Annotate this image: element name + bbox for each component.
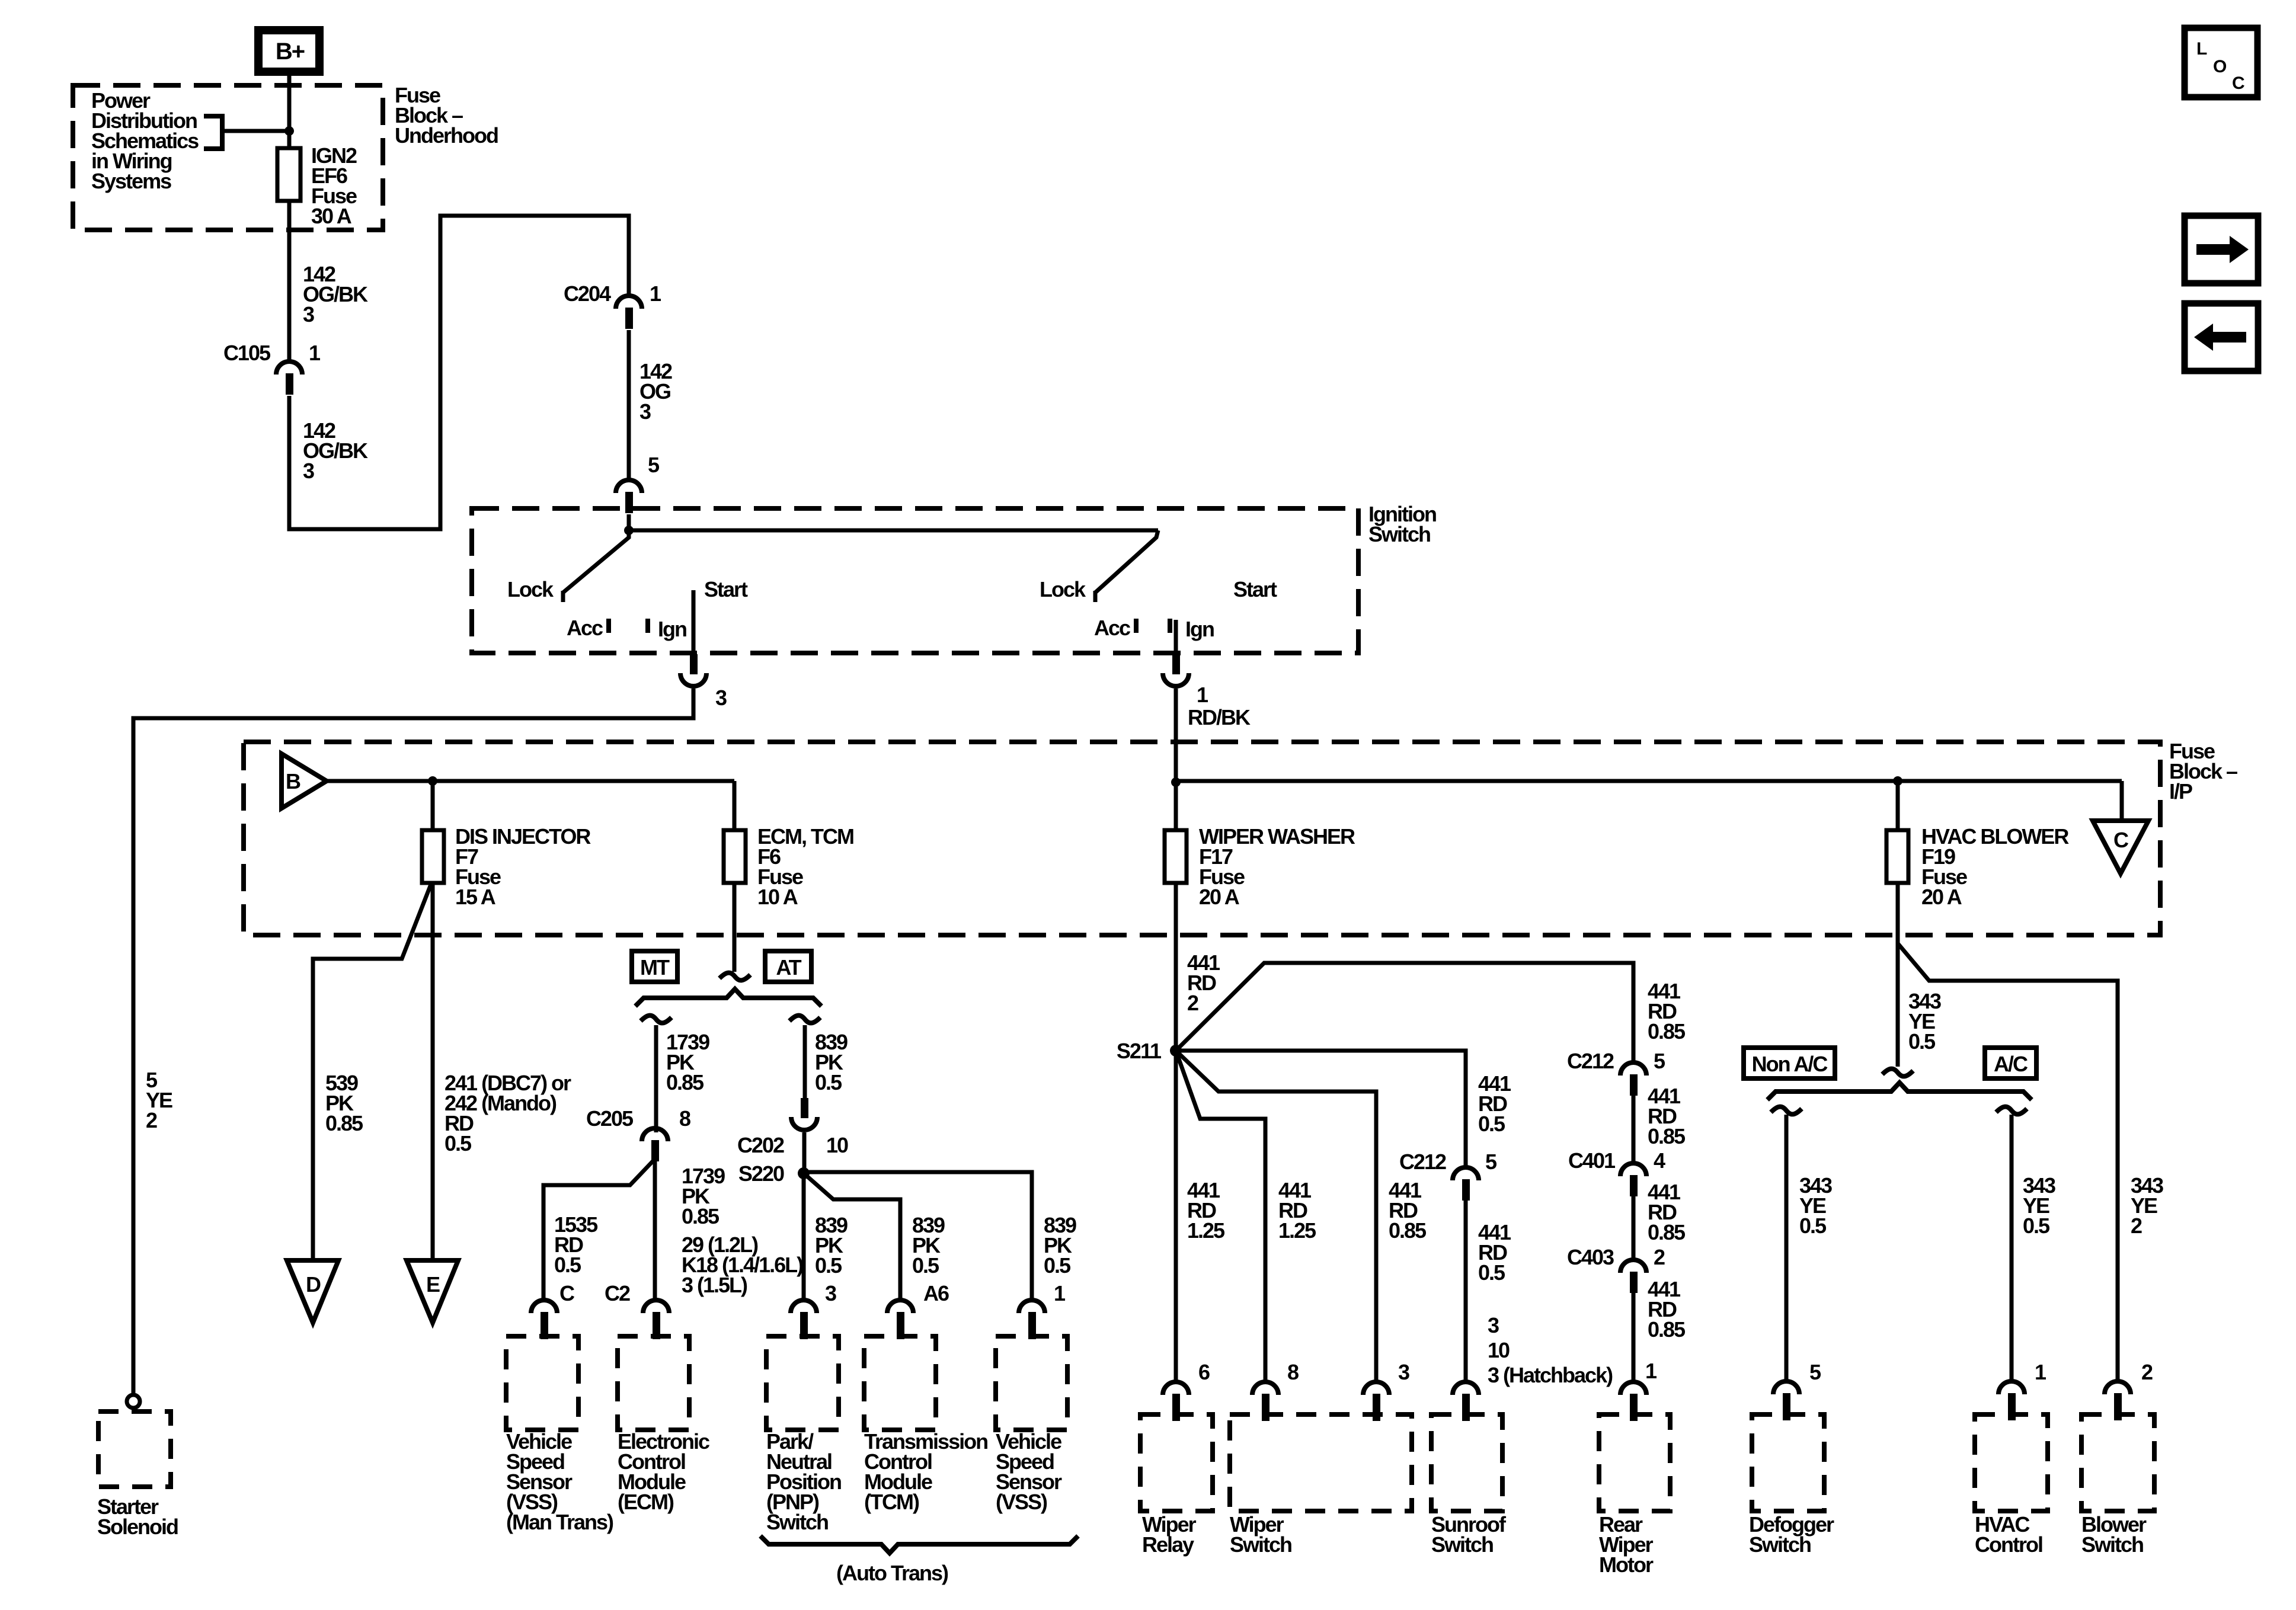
wire S211 to rear wiper chain: [1176, 963, 1633, 1061]
svg-text:0.5: 0.5: [912, 1253, 939, 1278]
arrow previous box: [2185, 303, 2258, 371]
svg-text:O: O: [2213, 57, 2227, 76]
wire branch to blower switch: [1898, 943, 2118, 1381]
connector to defogger switch: [1773, 1381, 1799, 1394]
wire bracket to node: [222, 129, 289, 133]
LOC legend box: [2185, 28, 2257, 97]
junction dot at F7: [428, 776, 437, 786]
wire F17 to S211: [1174, 883, 1178, 1051]
svg-text:L: L: [2196, 39, 2207, 59]
svg-text:Solenoid: Solenoid: [97, 1515, 178, 1539]
wire F19 down: [1896, 883, 1900, 943]
contact tick Ign right: [1168, 619, 1172, 633]
svg-text:Motor: Motor: [1599, 1553, 1654, 1577]
svg-text:Lock: Lock: [507, 577, 554, 601]
svg-text:1: 1: [650, 281, 661, 306]
svg-text:C202: C202: [737, 1133, 784, 1157]
connector C202: [801, 1098, 808, 1118]
svg-text:1: 1: [1197, 683, 1208, 707]
svg-text:Switch: Switch: [2081, 1532, 2143, 1557]
connector to sunroof switch: [1453, 1382, 1479, 1395]
svg-text:Ign: Ign: [1185, 617, 1214, 641]
svg-text:C204: C204: [564, 281, 611, 306]
svg-text:(TCM): (TCM): [864, 1490, 919, 1514]
svg-text:C401: C401: [1568, 1148, 1616, 1173]
connector to blower switch: [2105, 1381, 2131, 1394]
MT option box: [632, 951, 677, 982]
terminal ring starter solenoid: [127, 1395, 140, 1408]
svg-text:0.5: 0.5: [815, 1253, 842, 1278]
svg-text:3 (Hatchback): 3 (Hatchback): [1488, 1363, 1613, 1387]
break symbol AC branch: [1996, 1107, 2027, 1115]
brace Non AC / AC: [1767, 1083, 2032, 1100]
svg-text:AT: AT: [776, 955, 801, 980]
junction dot at F17: [1171, 777, 1181, 787]
svg-text:C: C: [559, 1281, 575, 1305]
svg-text:Acc: Acc: [1094, 616, 1130, 640]
connector pin 3 ignition: [690, 654, 698, 674]
svg-text:Ign: Ign: [658, 617, 686, 641]
svg-text:8: 8: [679, 1106, 690, 1131]
connector to VSS man trans: [531, 1300, 557, 1313]
svg-text:0.85: 0.85: [1648, 1019, 1686, 1044]
wire S211 to wiper relay: [1174, 1051, 1178, 1380]
svg-text:0.85: 0.85: [325, 1111, 363, 1135]
wire pin5 into switch: [627, 514, 631, 533]
svg-text:5: 5: [1654, 1049, 1665, 1073]
svg-text:3 (1.5L): 3 (1.5L): [682, 1273, 747, 1297]
svg-text:0.5: 0.5: [554, 1253, 581, 1277]
wire C205 to VSS man: [653, 1160, 657, 1300]
svg-text:1.25: 1.25: [1278, 1218, 1316, 1243]
switch wiper left: [563, 530, 629, 593]
svg-text:4: 4: [1654, 1148, 1665, 1173]
Electronic Control Module dashed box: [618, 1336, 689, 1430]
svg-text:0.5: 0.5: [1478, 1260, 1505, 1285]
svg-text:Switch: Switch: [1431, 1532, 1493, 1557]
wire F19 to AC split: [1896, 943, 1900, 1067]
svg-text:2: 2: [1187, 991, 1198, 1015]
brace MT/AT: [635, 989, 821, 1006]
Starter Solenoid dashed box: [98, 1411, 171, 1487]
svg-text:5: 5: [1809, 1360, 1821, 1384]
svg-text:1: 1: [2035, 1360, 2046, 1384]
svg-text:Switch: Switch: [766, 1510, 828, 1534]
svg-text:Start: Start: [704, 577, 748, 601]
fuse F19 HVAC BLOWER: [1886, 830, 1908, 883]
break symbol AT branch: [789, 1016, 820, 1023]
svg-text:0.5: 0.5: [1908, 1029, 1936, 1054]
Non A/C option box: [1744, 1048, 1835, 1078]
wire C105 to loop: [289, 216, 629, 529]
connector to wiper switch pin8: [1252, 1382, 1278, 1395]
arrow next box: [2185, 216, 2258, 283]
svg-text:0.5: 0.5: [1478, 1112, 1505, 1136]
bus wire right segment: [1176, 779, 2122, 783]
svg-text:8: 8: [1287, 1360, 1299, 1384]
svg-text:I/P: I/P: [2169, 779, 2192, 804]
junction dot S211: [1170, 1045, 1182, 1057]
Wiper Relay dashed box: [1140, 1414, 1213, 1511]
junction dot S220: [798, 1167, 810, 1179]
svg-text:0.85: 0.85: [666, 1070, 704, 1094]
svg-text:Acc: Acc: [567, 616, 603, 640]
break symbol MT branch: [641, 1016, 671, 1023]
connector C401: [1620, 1163, 1646, 1176]
svg-text:0.5: 0.5: [445, 1131, 472, 1156]
junction dot above fuse IGN2: [284, 126, 294, 136]
svg-text:S220: S220: [738, 1161, 784, 1186]
svg-text:0.5: 0.5: [815, 1070, 842, 1094]
wire S220 to TCM: [804, 1173, 900, 1300]
svg-text:1.25: 1.25: [1187, 1218, 1225, 1243]
svg-text:0.5: 0.5: [1044, 1253, 1071, 1278]
svg-text:2: 2: [1654, 1245, 1665, 1269]
Vehicle Speed Sensor ManTrans dashed box: [506, 1336, 578, 1430]
break symbol F6 output: [720, 973, 750, 981]
Sunroof Switch dashed box: [1431, 1414, 1502, 1511]
wire 142 OG to ignition switch: [627, 330, 631, 479]
svg-text:A/C: A/C: [1994, 1052, 2028, 1076]
svg-text:C205: C205: [586, 1106, 634, 1131]
contact tick Lock left: [561, 591, 565, 602]
svg-text:10 A: 10 A: [757, 885, 798, 909]
svg-text:Switch: Switch: [1230, 1532, 1291, 1557]
break symbol AC split: [1882, 1069, 1913, 1077]
wire branch to VSS C: [543, 1160, 654, 1300]
svg-text:Relay: Relay: [1142, 1532, 1194, 1557]
svg-text:1: 1: [1054, 1281, 1066, 1305]
svg-text:0.85: 0.85: [1389, 1218, 1427, 1243]
svg-text:RD/BK: RD/BK: [1188, 705, 1251, 729]
svg-text:0.85: 0.85: [1648, 1124, 1686, 1148]
svg-text:0.5: 0.5: [1799, 1214, 1827, 1238]
triangle B: [282, 754, 327, 808]
svg-text:(Man Trans): (Man Trans): [506, 1510, 613, 1534]
bracket for note: [204, 116, 222, 149]
bus corner to triangle C: [2120, 781, 2124, 821]
svg-text:20 A: 20 A: [1921, 885, 1962, 909]
svg-text:1: 1: [1645, 1359, 1657, 1383]
svg-text:(VSS): (VSS): [996, 1490, 1047, 1514]
svg-text:2: 2: [146, 1108, 157, 1132]
Transmission Control Module dashed box: [864, 1336, 936, 1430]
svg-text:Systems: Systems: [91, 169, 171, 193]
corner down to F6: [733, 781, 737, 830]
svg-text:E: E: [426, 1272, 440, 1297]
svg-text:B+: B+: [276, 39, 305, 65]
svg-text:Control: Control: [1975, 1532, 2042, 1557]
connector C105: [276, 361, 302, 375]
wire S220 to PNP: [802, 1173, 806, 1300]
svg-text:3: 3: [303, 302, 314, 327]
wire F6 output: [733, 883, 737, 972]
contact tick Ign left: [645, 619, 650, 633]
wire fuse IGN2 to C105: [287, 201, 292, 361]
wire B+ down into fuse block: [287, 71, 292, 150]
junction dot ignition feed: [624, 526, 634, 535]
wire pin 3 to starter solenoid: [133, 689, 693, 1395]
Vehicle Speed Sensor dashed box: [996, 1336, 1067, 1430]
svg-text:30 A: 30 A: [311, 204, 352, 228]
Park Neutral Position Switch dashed box: [766, 1336, 839, 1430]
junction dot at F19: [1893, 776, 1902, 786]
svg-text:MT: MT: [640, 955, 670, 980]
Ignition Switch dashed box: [472, 508, 1358, 653]
connector to rear wiper motor: [1620, 1382, 1646, 1395]
HVAC Control dashed box: [1975, 1414, 2048, 1511]
svg-text:(Auto Trans): (Auto Trans): [836, 1561, 948, 1585]
svg-text:3: 3: [1398, 1360, 1409, 1384]
wire S211 to wiper switch pin8: [1176, 1051, 1265, 1380]
connector C403: [1620, 1260, 1646, 1273]
svg-text:0.85: 0.85: [1648, 1220, 1686, 1244]
wire to HVAC control: [2010, 1115, 2014, 1381]
connector to PNP switch: [791, 1300, 817, 1313]
svg-text:3: 3: [715, 686, 727, 710]
wire C202 to S220: [802, 1132, 807, 1173]
fuse F7 DIS INJECTOR: [422, 830, 444, 883]
svg-text:D: D: [306, 1272, 321, 1297]
Wiper Switch dashed box: [1230, 1414, 1412, 1511]
fuse F6 ECM TCM: [724, 830, 746, 883]
wire S211 to wiper switch pin3: [1176, 1051, 1376, 1380]
svg-text:0.85: 0.85: [682, 1204, 720, 1228]
wire C401 to C403: [1632, 1196, 1636, 1258]
svg-text:C403: C403: [1567, 1245, 1614, 1269]
svg-text:15 A: 15 A: [455, 885, 496, 909]
connector to ECM: [643, 1300, 669, 1313]
connector to TCM: [887, 1300, 913, 1313]
wire F7 to E: [431, 883, 435, 1260]
svg-text:C105: C105: [223, 341, 271, 365]
connector C212 sunroof: [1453, 1167, 1479, 1180]
contact line Start-Ign left: [692, 590, 696, 654]
A/C option box: [1985, 1048, 2036, 1078]
svg-text:(ECM): (ECM): [618, 1490, 674, 1514]
connector pin 5 ignition switch: [616, 480, 642, 493]
svg-text:0.85: 0.85: [1648, 1317, 1686, 1342]
switch wiper right: [1095, 530, 1158, 593]
svg-text:Non A/C: Non A/C: [1752, 1052, 1828, 1076]
svg-text:Switch: Switch: [1368, 522, 1430, 546]
triangle C: [2093, 821, 2148, 873]
svg-text:3: 3: [303, 459, 314, 483]
svg-text:Underhood: Underhood: [395, 123, 498, 148]
svg-text:5: 5: [1485, 1150, 1497, 1174]
brace Auto Trans: [760, 1536, 1078, 1553]
wire S211 to sunroof: [1176, 1051, 1466, 1166]
break symbol non AC branch: [1771, 1107, 1802, 1115]
svg-text:6: 6: [1198, 1360, 1210, 1384]
connector pin 1 ignition: [1172, 654, 1180, 674]
connector to wiper switch pin3: [1363, 1382, 1389, 1395]
contact line Ign right: [1174, 620, 1178, 654]
fuse F17 WIPER WASHER: [1165, 830, 1187, 883]
wire down to F7: [431, 781, 435, 830]
connector C205: [642, 1128, 668, 1141]
svg-text:2: 2: [2131, 1214, 2142, 1238]
connector to wiper relay: [1163, 1382, 1189, 1395]
svg-text:10: 10: [826, 1133, 848, 1157]
connector C204: [616, 296, 642, 309]
svg-text:5: 5: [648, 453, 660, 477]
triangle E: [407, 1260, 458, 1323]
wire down to F17: [1174, 781, 1178, 830]
svg-text:3: 3: [639, 399, 651, 424]
connector C212 rear: [1620, 1062, 1646, 1076]
Defogger Switch dashed box: [1752, 1414, 1824, 1511]
connector to HVAC control: [1998, 1381, 2025, 1394]
svg-text:C2: C2: [605, 1281, 630, 1305]
contact tick Acc right: [1134, 619, 1139, 633]
Fuse Block - Underhood dashed box: [73, 85, 383, 230]
wire MT branch: [654, 1025, 658, 1132]
svg-text:Start: Start: [1233, 577, 1277, 601]
svg-text:1: 1: [309, 341, 321, 365]
triangle D: [287, 1260, 338, 1323]
wire AT branch: [803, 1025, 807, 1102]
svg-text:A6: A6: [923, 1281, 949, 1305]
svg-text:10: 10: [1488, 1338, 1510, 1362]
svg-text:C212: C212: [1399, 1150, 1446, 1174]
Rear Wiper Motor dashed box: [1599, 1414, 1670, 1511]
wire down to F19: [1896, 781, 1900, 830]
svg-text:Switch: Switch: [1749, 1532, 1811, 1557]
svg-text:S211: S211: [1117, 1039, 1162, 1063]
wire C403 to rear wiper motor: [1632, 1293, 1636, 1380]
wire to defogger switch: [1785, 1115, 1789, 1381]
wire C212 to C401: [1632, 1096, 1636, 1161]
svg-text:20 A: 20 A: [1199, 885, 1240, 909]
wire C212 to sunroof switch: [1464, 1201, 1468, 1380]
contact tick Acc left: [606, 619, 611, 633]
wire ignition feed bus: [629, 529, 1158, 533]
bus wire from B: [327, 779, 734, 783]
svg-text:3: 3: [1488, 1313, 1499, 1337]
svg-text:B: B: [286, 769, 300, 793]
svg-text:C: C: [2113, 828, 2129, 852]
battery feed B+ terminal box: [258, 30, 319, 72]
wire pin 1 to fuse block I/P: [1174, 689, 1178, 782]
contact tick Lock right: [1093, 591, 1098, 602]
wire F7 branch to D: [313, 883, 431, 1260]
fuse IGN2 EF6 30A: [277, 148, 300, 201]
svg-text:0.5: 0.5: [2023, 1214, 2050, 1238]
svg-text:C: C: [2232, 73, 2244, 93]
Fuse Block - I/P dashed box: [244, 742, 2160, 935]
connector to VSS auto: [1019, 1300, 1045, 1313]
svg-text:3: 3: [825, 1281, 836, 1305]
svg-text:2: 2: [2141, 1360, 2153, 1384]
wire S220 to VSS auto: [804, 1172, 1032, 1300]
AT option box: [765, 951, 811, 982]
svg-text:C212: C212: [1567, 1049, 1614, 1073]
svg-text:Lock: Lock: [1040, 577, 1086, 601]
Blower Switch dashed box: [2081, 1414, 2154, 1511]
